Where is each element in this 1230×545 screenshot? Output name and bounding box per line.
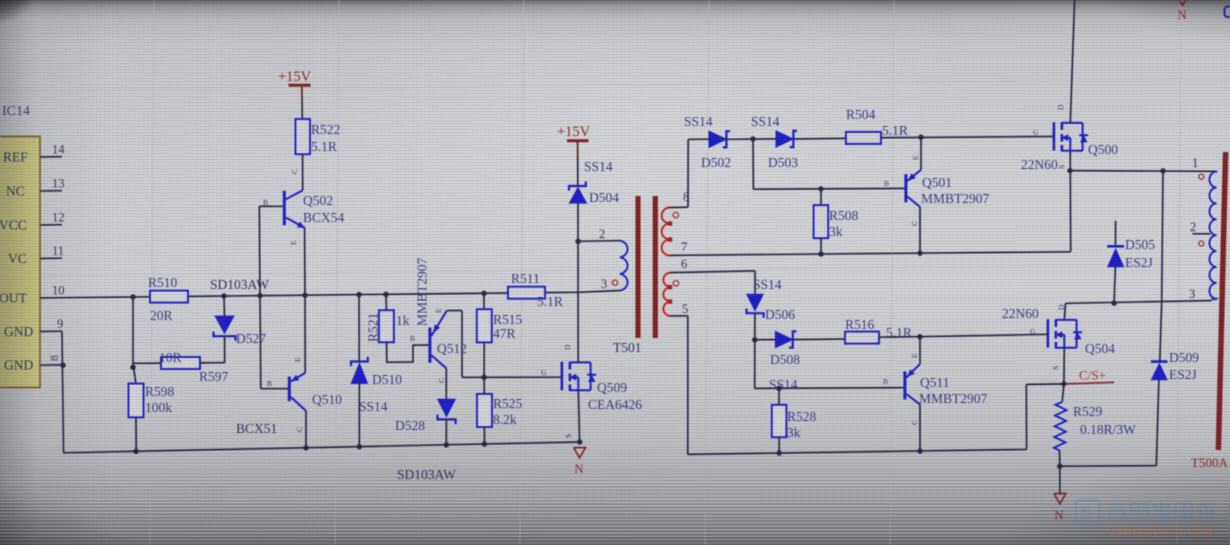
wire rail up to Q500 source [1069, 171, 1071, 252]
Q511 label [920, 375, 950, 390]
wire Q502 base horizontal [259, 205, 283, 207]
IC14 pin 13 stub [40, 190, 62, 192]
diode D508 [775, 331, 796, 348]
resistor R521 [379, 310, 394, 342]
Q512 emitter diagonal [431, 311, 446, 336]
Q509 pin S [564, 434, 573, 438]
T501 core bar right [653, 196, 658, 338]
mosfet Q509 [562, 362, 596, 391]
D528 label [395, 418, 425, 433]
R521 label (rotated) [366, 313, 381, 342]
resistor R525 [477, 394, 492, 427]
resistor R529 (zigzag) [1054, 402, 1066, 451]
wire D505 anode [1114, 267, 1115, 303]
T501 secondary top winding [662, 208, 670, 256]
node R508 top junction [818, 186, 823, 191]
ground N label (top right) [1178, 8, 1187, 22]
Q501 pin B [884, 179, 889, 188]
wire R515 top lead [483, 293, 485, 309]
D527 label [236, 331, 266, 346]
T500A polarity circle mid [1199, 241, 1204, 246]
IC14 pin 11 stub [40, 257, 62, 259]
T501 pin 2 label [599, 227, 605, 241]
wire bottom-left rail [64, 442, 581, 453]
wire Q512 collector vert [445, 368, 447, 399]
wire Q511 base line [755, 387, 904, 390]
Q511 pin E [910, 353, 919, 358]
R515 label [493, 312, 523, 327]
diode D504 [569, 181, 587, 203]
R508 label [829, 208, 859, 223]
wire pin1 branch down [1162, 171, 1163, 302]
wire Q501 emitter vert [920, 137, 922, 170]
T501 pin 8 stub [670, 206, 688, 208]
T501 pin 3 stub [578, 291, 620, 293]
wire OUT to R597 branch [132, 297, 134, 367]
diode D527 [214, 316, 236, 341]
D505 type ES2J [1125, 255, 1153, 270]
D502 type SS14 [684, 114, 713, 129]
wire R521 top lead [385, 294, 387, 310]
wire Q500 source line [1070, 170, 1213, 173]
wire T501 pin5 down [687, 316, 689, 455]
T501 pin 5 label [682, 302, 688, 316]
D504 label [589, 190, 619, 205]
Q504 label [1085, 341, 1115, 356]
wire T501 pin8 up [687, 139, 689, 207]
D508 type SS14 [769, 377, 798, 392]
R515 value 47R [493, 326, 516, 341]
resistor R510 [150, 291, 188, 303]
node OUT net junction [302, 293, 307, 298]
Q504 pin D [1057, 304, 1066, 310]
T501 secondary bottom winding [663, 273, 670, 317]
wire +15V lead maroon [301, 85, 303, 103]
Q502 label [303, 193, 333, 208]
T500A label [1191, 455, 1228, 470]
T500A pin 3 label [1189, 287, 1195, 301]
wire D528 cathode [445, 419, 447, 445]
watermark logo 21dianyuan [1076, 500, 1215, 539]
wire T500A pin3 line [1066, 301, 1212, 304]
diode D510 [351, 357, 368, 384]
Q504 pin S [1051, 366, 1060, 370]
R510 label [148, 275, 178, 290]
T500A pin 1 label [1192, 156, 1198, 170]
label SD103AW (bottom) [397, 467, 456, 482]
resistor R598 [129, 384, 144, 418]
resistor R522 [295, 119, 310, 154]
R525 value 8.2k [493, 412, 517, 427]
wire R529 top lead [1062, 384, 1064, 402]
wire R516 to junction [879, 336, 920, 339]
node bottom rail junction [444, 442, 449, 447]
ground N label (left) [575, 462, 584, 476]
D504 type SS14 [584, 159, 613, 174]
wire D502 junction down [752, 139, 754, 189]
T501 primary polarity circle [612, 280, 617, 285]
wire D505 cathode stub [1115, 221, 1117, 246]
node bottom rail junction [482, 441, 487, 446]
wire Q504 source down [1063, 348, 1065, 384]
power +15V label (mid) [557, 124, 591, 140]
T500A core bar [1218, 152, 1225, 450]
Q504 pin G [1030, 327, 1036, 336]
T501 secondary top polarity circle [673, 212, 678, 217]
R504 value 5.1R [882, 123, 908, 138]
wire Q510 collector vertical [305, 411, 307, 448]
diode D505 [1107, 246, 1124, 267]
R525 label [493, 396, 523, 411]
Q511 collector diagonal [906, 394, 920, 404]
IC14 pin 11 number [52, 244, 64, 258]
IC14 pin 12 number [52, 211, 65, 225]
Q509 pin D [563, 344, 572, 350]
wire R508 bottom lead [820, 238, 822, 254]
T501 pin 7 label [681, 240, 687, 254]
ground N label (right) [1055, 509, 1064, 523]
Q510 label [312, 392, 342, 407]
D508 label [770, 352, 800, 367]
IC14 pin 13 number [52, 177, 65, 191]
D502 label [701, 155, 731, 170]
IC14 pin 14 number [52, 143, 65, 157]
wire OUT net segment B [188, 293, 508, 296]
node bottom rail junction [577, 439, 582, 444]
Q500 type 22N60 [1021, 157, 1058, 172]
wire R528 bottom lead [778, 437, 780, 453]
D510 type SS14 [359, 399, 388, 414]
wire +15V to D504 [577, 158, 579, 186]
wire Q510 base horizontal [261, 388, 288, 390]
T501 pin 5 stub [670, 315, 688, 317]
IC14 pin name OUT [0, 291, 27, 306]
wire +15V lead to R522 [301, 103, 303, 119]
resistor R528 [772, 405, 787, 437]
wire OUT net segment C [545, 291, 578, 293]
node pin1 branch junction [1160, 168, 1165, 173]
ground N symbol (top right, clipped) [1177, 0, 1189, 6]
node OUT net junction [130, 294, 135, 299]
power +15V label (left) [278, 69, 312, 85]
transistor Q512 base bar [428, 328, 431, 363]
wire Q502 emitter vertical [304, 228, 306, 296]
R522 label [311, 122, 340, 137]
Q509 type CEA6426 [588, 397, 642, 412]
wire pin9 to bottom rail [62, 331, 64, 453]
Q509 pin G [541, 368, 547, 377]
diode D509 [1151, 362, 1168, 380]
wire R597 right [200, 362, 225, 364]
node OUT net junction [481, 291, 486, 296]
wire R597 left [133, 362, 161, 364]
Q510 pin E [293, 357, 302, 362]
wire R504 to Q500 gate [881, 137, 1054, 138]
T501 pin 7 stub [670, 254, 688, 256]
node OUT net junction [257, 293, 262, 298]
wire D506 cathode down [754, 313, 756, 388]
wire D510 top [358, 295, 360, 362]
wire left branch down to rail [1025, 385, 1027, 450]
node OUT net junction [356, 292, 361, 297]
net label C/S+ [1079, 368, 1106, 383]
IC14 pin 14 stub [40, 156, 62, 158]
Q511 pin C [910, 420, 919, 425]
wire R598 bottom lead [135, 417, 137, 451]
wire gate line Q509 [462, 376, 562, 378]
diode D506 [747, 294, 764, 318]
node Q504 source junction [1061, 381, 1066, 386]
Q512 pin B [410, 334, 415, 343]
node R528 bottom junction [777, 450, 782, 455]
IC14 pin name VC [8, 251, 27, 266]
wire gate line Q504 [920, 334, 1048, 336]
wire Q510 emitter vertical [304, 296, 306, 373]
wire R521 bottom to Q512 base [387, 342, 429, 362]
wire D509 anode up [1156, 380, 1159, 466]
wire R528 top lead [778, 388, 780, 405]
resistor R511 [508, 287, 545, 299]
R528 value 3k [787, 425, 801, 440]
Q501 collector diagonal [907, 197, 920, 208]
T501 secondary bottom polarity circle [673, 281, 678, 286]
node bottom rail junction [133, 449, 138, 454]
Q502 collector diagonal [286, 190, 303, 199]
IC14 pin 9 stub [40, 330, 62, 332]
R529 label [1073, 404, 1103, 419]
wire to ground N (right) [1059, 466, 1061, 493]
wire D509 cathode up [1160, 302, 1162, 362]
D505 label [1125, 237, 1155, 252]
IC14 pin 8 stub [40, 364, 62, 366]
node gate line junction [481, 375, 486, 380]
wire Q500 source down [1069, 151, 1071, 171]
node bottom rail junction [357, 444, 362, 449]
Q510 collector diagonal [291, 397, 306, 411]
wire D527 anode [223, 296, 226, 316]
IC14 pin 10 stub [40, 297, 62, 299]
D503 type SS14 [751, 114, 780, 129]
diode D528 [438, 399, 456, 424]
Q510 type BCX51 [236, 421, 277, 436]
wire Q512 emitter vert [461, 311, 463, 378]
R510 value 20R [150, 308, 173, 323]
power +15V bar (mid) [567, 139, 589, 142]
IC14 pin 9 number [57, 317, 63, 331]
wire Q511 emitter vert [919, 337, 921, 364]
Q504 type 22N60 [1002, 306, 1039, 321]
T500A winding [1210, 171, 1217, 299]
Q510 emitter diagonal [291, 373, 305, 382]
R508 value 3k [829, 224, 843, 239]
wire Q509 source down [578, 390, 579, 442]
node R508 bottom junction [818, 251, 823, 256]
wire bottom-right rail [688, 449, 1027, 454]
ground N symbol (left) [574, 448, 586, 458]
Q511 emitter diagonal [906, 364, 920, 378]
IC14 designator label [2, 104, 30, 119]
label SD103AW (top) [210, 277, 269, 292]
node Q501 emitter junction [918, 135, 923, 140]
wire +15V to D504 maroon [577, 141, 579, 158]
transistor Q502 base bar [283, 191, 286, 225]
wire Q500 drain up [1070, 0, 1074, 123]
net label C/S+ line [1064, 382, 1114, 384]
wire pin7 rail [688, 252, 1071, 255]
Q512 type MMBT2907 (rotated) [415, 257, 430, 326]
node OUT net junction [383, 292, 388, 297]
transistor Q510 base bar [288, 377, 291, 402]
D509 label [1169, 350, 1199, 365]
mosfet Q504 [1048, 319, 1082, 348]
Q511 type MMBT2907 [919, 391, 988, 406]
Q500 pin S [1057, 165, 1066, 169]
ground N symbol (right) [1054, 494, 1066, 504]
transistor Q501 base bar [904, 174, 907, 202]
wire R529 bottom lead [1059, 451, 1061, 467]
wire R525 top lead [483, 377, 485, 394]
Q512 collector diagonal [431, 355, 446, 368]
wire Q502 base vertical [258, 206, 261, 295]
node T501 pin2 junction [575, 239, 580, 244]
D503 label [768, 155, 798, 170]
T501 pin 3 label [601, 277, 607, 291]
node D502/D503 junction [750, 136, 755, 141]
IC14 pin name REF [3, 150, 28, 165]
resistor R516 [845, 332, 879, 344]
Q502 pin C [290, 169, 299, 174]
wire R598 top lead [134, 367, 136, 383]
T501 pin 2 stub [578, 240, 620, 243]
D509 type ES2J [1169, 367, 1197, 382]
Q501 label [922, 175, 952, 190]
node R528 top junction [776, 386, 781, 391]
wire R508 top lead [820, 189, 822, 205]
wire pin3 to Q504 drain [1064, 303, 1065, 320]
resistor R504 [846, 132, 881, 144]
Q510 pin C [295, 427, 304, 432]
R511 value 5.1R [537, 294, 563, 309]
wire pin6 corner down [754, 271, 756, 294]
T501 pin 6 stub and wire [670, 271, 755, 273]
node Q501 collector junction [917, 250, 922, 255]
mosfet Q500 [1054, 122, 1088, 151]
T501 label [613, 340, 642, 355]
R528 label [787, 409, 817, 424]
wire D508 anode [755, 339, 776, 341]
node Q500 source junction [1067, 168, 1072, 173]
Q502 emitter diagonal [286, 218, 305, 228]
wire D504 anode down to Q509 drain [577, 203, 579, 362]
wire Q501 base line [753, 187, 904, 190]
R597 value 10R [159, 350, 182, 365]
node OUT net junction [221, 293, 226, 298]
D506 label [765, 307, 795, 322]
T500A polarity circle top [1199, 174, 1204, 179]
transistor Q511 base bar [903, 372, 906, 400]
IC14 pin 8 number [47, 355, 61, 361]
wire Q504 source left [1026, 383, 1064, 386]
Q501 type MMBT2907 [921, 191, 990, 206]
Q512 label [437, 341, 467, 356]
Q501 pin E [911, 155, 920, 160]
node R597 branch [130, 365, 135, 370]
Q511 pin B [883, 377, 888, 386]
node R529 bottom junction [1057, 464, 1062, 469]
T501 pin 6 label [681, 257, 687, 271]
wire pin8 to D502 [688, 138, 709, 140]
node D508 branch junction [752, 337, 757, 342]
diode D502 [709, 131, 730, 148]
power +15V bar (left) [289, 84, 311, 87]
R598 value 100k [145, 400, 172, 415]
R529 value 0.18R/3W [1080, 422, 1136, 437]
node bottom rail junction [303, 445, 308, 450]
wire Q511 collector vert [919, 404, 921, 451]
Q509 label [597, 380, 627, 395]
R598 label [145, 384, 175, 399]
node R516/Q511 junction [917, 334, 922, 339]
node pin8 junction [60, 363, 65, 368]
R522 value 5.1R [311, 139, 337, 154]
wire Q501 collector vert [919, 207, 921, 253]
wire D503 to R504 [793, 137, 846, 140]
wire D508 to R516 [793, 338, 845, 341]
component fragment top-right corner [1225, 7, 1230, 18]
Q502 type BCX54 [303, 210, 345, 225]
R511 label [511, 271, 540, 286]
IC U14 body [0, 137, 40, 388]
Q501 emitter diagonal [907, 170, 921, 181]
IC14 pin name GND [4, 358, 33, 373]
resistor R508 [814, 205, 829, 238]
Q502 pin E [289, 240, 298, 245]
diode D503 [776, 131, 797, 148]
wire R515 bottom lead [483, 342, 485, 377]
Q510 pin B [267, 379, 272, 388]
T501 pin 8 label [683, 190, 689, 204]
IC14 pin name NC [6, 184, 25, 199]
Q500 pin D [1056, 104, 1065, 110]
Q512 pin E [434, 308, 443, 313]
Q500 pin G [1033, 128, 1039, 137]
wire D502 to D503 [726, 138, 776, 140]
T501 secondary bottom cusp marks [668, 285, 672, 304]
Q501 pin C [910, 221, 919, 226]
wire OUT net segment A [62, 296, 150, 299]
IC14 pin name VCC [0, 218, 27, 233]
R516 label [845, 317, 875, 332]
R597 label [199, 369, 229, 384]
T501 secondary top cusp marks [668, 221, 672, 241]
R504 label [846, 107, 876, 122]
Q512 pin C [437, 378, 446, 383]
node Q511 collector junction [917, 448, 922, 453]
R521 value 1k [396, 313, 410, 328]
IC14 pin 10 number [52, 284, 65, 298]
IC14 pin name GND [4, 324, 33, 339]
wire Q502 collector vertical [302, 154, 304, 190]
resistor R515 [477, 309, 492, 342]
wire Q512 emitter horiz [447, 310, 462, 312]
T500A pin 2 label [1190, 220, 1196, 234]
resistor R597 [161, 357, 200, 369]
R516 value 5.1R [886, 325, 912, 340]
Q502 pin B [263, 198, 268, 207]
wire R529 bottom to D509 [1060, 465, 1157, 468]
node D505 anode junction [1111, 300, 1116, 305]
wire D510 bottom [358, 384, 360, 447]
